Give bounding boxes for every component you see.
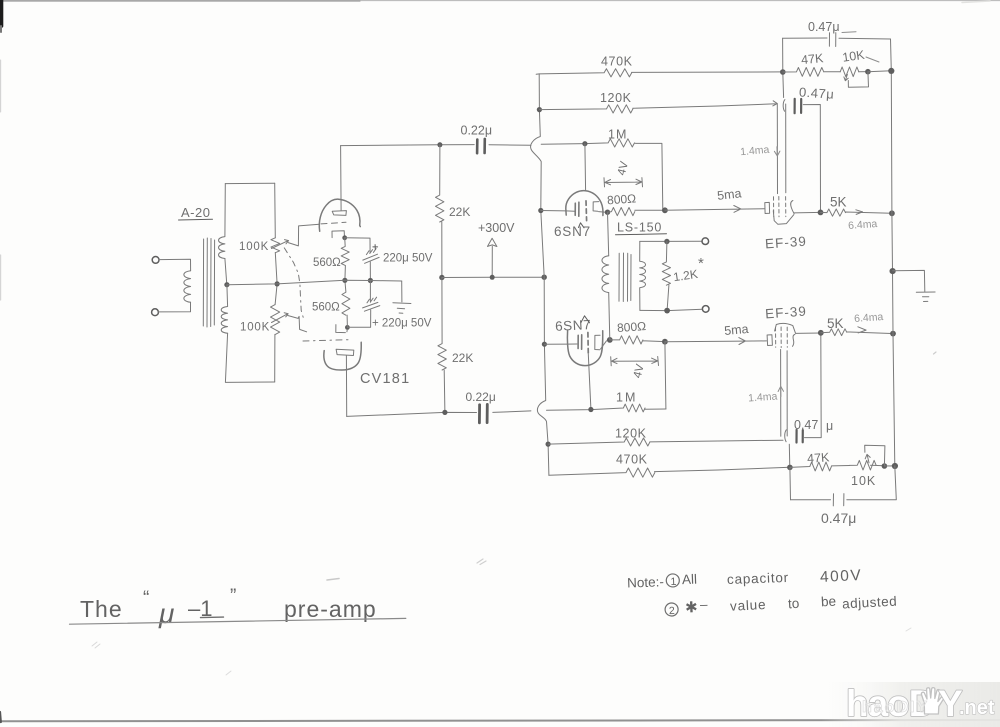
wire top row [341,145,531,146]
wire wiper to grid step lower [288,316,307,332]
svg-text:1: 1 [670,576,676,588]
wire box right edge middle [275,253,277,305]
wire box right edge lower [274,334,276,382]
svg-text:800Ω: 800Ω [607,191,637,207]
node cathode upper [342,235,347,240]
capacitor 220u50V upper plates [363,249,379,264]
svg-text:✱: ✱ [685,599,698,616]
wire bottom block left vertical [789,467,792,499]
svg-text:1.4ma: 1.4ma [740,144,770,159]
resistor 5K lower [821,327,893,336]
scan top edge line [0,0,1000,2]
svg-text:0.47μ: 0.47μ [821,510,856,526]
input jack J2 bottom [152,309,159,316]
svg-text:–: – [700,597,709,612]
node 120K top row [537,107,542,112]
svg-text:6.4ma: 6.4ma [854,311,884,325]
circled 1 [666,574,679,587]
wire plate to bottom row [345,356,347,417]
svg-text:6SN7: 6SN7 [554,224,591,239]
svg-text:6.4ma: 6.4ma [848,218,878,232]
node center tap [224,282,229,287]
EF-39 upper envelope [773,201,794,225]
node right bus 5K lower [890,331,896,337]
check mark on label lower [581,316,590,323]
capacitor 0.47u top row [783,33,891,47]
wire cap to cathode node upper [803,105,820,213]
node 6SN7 bottom plate row [542,342,547,347]
tube CV181 upper envelope [319,199,360,231]
svg-text:0.47μ: 0.47μ [799,84,835,101]
node 470K row right [787,465,793,471]
svg-text:120K: 120K [600,91,632,105]
node 6SN7 top plate row [538,208,543,213]
node top row bus [437,142,442,147]
pot 10K wiper arrow [844,74,848,80]
resistor 22K upper on bus [436,145,444,277]
ground right [893,270,936,301]
potentiometer 10K bottom [850,460,877,470]
node 800R left upper [605,210,610,215]
node 800R right lower [662,339,668,345]
resistor 800R lower [610,336,665,344]
node +300V rail right [542,275,547,280]
svg-text:*: * [698,255,704,272]
capacitor 220u50V lower plates [363,297,380,311]
node 10K right bottom [882,463,888,469]
wire bottom row [347,411,531,417]
CV181 upper cathode [332,231,345,238]
EF-39 lower cathode box [767,335,772,346]
dimension 4V lower [611,357,659,366]
scan corner blob top-left [0,0,3,26]
wire left bus (with crossover hops) [531,74,549,475]
svg-text:470K: 470K [601,55,633,69]
scan left edge mark [0,60,2,112]
scan bottom edge line [0,720,1000,721]
potentiometer 10K top [840,67,859,77]
svg-text:120K: 120K [615,427,647,441]
svg-text:470K: 470K [616,453,648,467]
transformer A-20 secondary upper coil [219,184,226,259]
resistor 5K upper [821,209,892,216]
wire cathode to cap upper [345,238,370,253]
wire cathode to cap lower [347,326,370,328]
svg-text:All: All [682,572,698,588]
svg-text:1M: 1M [608,128,627,142]
svg-text:be: be [821,594,837,610]
resistor 1M bottom row [547,404,666,412]
LS-150 core [619,253,631,302]
node 120K bottom row [546,442,551,447]
resistor 120K bottom row [548,438,783,446]
dimension 4V upper [604,178,643,187]
wire primary to 6SN7 lower cathode [609,293,610,340]
EF-39 lower plate out [796,332,821,334]
node +300V arrow base [490,275,495,280]
node 5K left upper [818,210,824,216]
svg-text:EF-39: EF-39 [765,234,808,252]
CV181 upper grid (dashed) [321,222,346,224]
svg-text:CV181: CV181 [360,371,410,387]
wire right bus [891,71,895,466]
dash-dot crossover wiper line [284,248,304,320]
wire 5ma lower with arrow [665,338,767,345]
wire 10K bracket bottom [865,445,885,466]
svg-text:0.22μ: 0.22μ [466,390,496,404]
6SN7 lower cathode [595,335,607,350]
node cathode lower [345,325,350,330]
svg-text:+ 220μ 50V: + 220μ 50V [372,318,432,330]
wire [158,302,190,312]
transformer A-20 core [202,239,204,326]
wire top block right vertical [890,39,893,71]
node 1M bottom left [588,407,593,412]
svg-text:0.47μ: 0.47μ [808,20,840,34]
wire [159,259,191,271]
tube 6SN7 upper envelope [566,191,603,216]
wire box bottom-left + bottom edge [225,333,274,382]
pot wiper arrow upper [272,240,289,249]
svg-text:10K: 10K [841,48,866,65]
potentiometer 100K lower body [271,305,280,335]
svg-text:capacitor: capacitor [727,570,789,587]
pot 10K bottom wiper arrow [865,454,870,462]
svg-text:4V: 4V [632,363,647,380]
title underline [70,618,406,624]
6SN7 upper cathode [593,202,606,213]
svg-text:1.2K: 1.2K [672,267,698,284]
svg-text:47K: 47K [801,51,825,67]
wire cap upper to center [369,262,371,281]
node 1M top left [582,141,587,146]
wire screen verticals upper [777,104,786,194]
6SN7 lower plate bars [578,335,582,349]
capacitor 0.47u bottom row [791,466,897,506]
capacitor 0.47u screen lower [785,430,790,468]
wire secondary top to output [640,240,702,242]
6SN7 upper plate bars [575,202,579,216]
wire row to bus bottom [884,465,894,467]
node 10K right top [865,69,871,75]
node 47K row right bus [888,68,894,74]
EF-39 upper cathode box [765,202,770,213]
svg-text:0.47: 0.47 [794,418,818,432]
svg-text:“: “ [143,588,149,609]
LS-150 primary coil [602,256,609,293]
svg-text:5K: 5K [827,316,844,331]
wire plate to top row [340,146,343,211]
wire wiper to grid step upper [288,224,319,246]
wire 47K row to bus [868,70,891,73]
svg-text:1.4ma: 1.4ma [748,390,778,404]
wire top block left vertical [782,38,784,72]
svg-text:560Ω: 560Ω [313,257,341,269]
svg-text:10K: 10K [851,474,876,488]
node 5K left lower [818,330,824,336]
node +300V rail left [439,275,444,280]
transformer A-20 secondary lower coil [221,285,227,334]
node pot junction [275,281,280,286]
corner streak top-right [962,1,990,3]
resistor 47K top [783,68,840,77]
resistor 1.2K [662,242,670,311]
CV181 lower grid (dash-dot) [303,340,352,341]
svg-text:400V: 400V [820,567,863,586]
svg-text:haoDIY: haoDIY [862,699,929,716]
svg-text:560Ω: 560Ω [312,302,340,314]
wire 800R node to 1M row lower [665,342,666,409]
resistor 120K top row [539,101,777,113]
ground CV181 [393,281,411,313]
node 47K row left [780,69,786,75]
svg-text:μ: μ [158,598,174,629]
output jack top [702,238,709,245]
EF-39 upper grid dashes [773,197,775,217]
svg-text:4V: 4V [616,160,631,177]
wire cap lower top [369,281,371,303]
plus sign upper [373,245,378,250]
wire secondary to center tap [225,259,227,285]
wire plate row lower [544,343,577,345]
svg-text:adjusted: adjusted [842,594,898,612]
capacitor 0.22u upper [477,139,485,153]
resistor 470K top row [536,69,783,77]
wire box top edge [225,182,274,184]
node 800R left lower [607,337,613,343]
circled 2 [665,603,678,616]
wire secondary bottom to output [640,309,703,310]
capacitor 0.22u lower [479,404,487,422]
tube CV181 lower envelope [324,342,361,370]
svg-text:800Ω: 800Ω [617,319,647,335]
CV181 lower plate [336,349,354,355]
svg-text:+300V: +300V [478,221,515,235]
svg-text:100K: 100K [240,322,270,334]
resistor 560R lower [342,280,350,327]
svg-text:6SN7: 6SN7 [555,317,592,334]
wire cap lower bottom [370,310,372,327]
svg-text:.net: .net [959,697,995,719]
node 1.2K bottom [664,308,670,314]
check mark on label [579,223,585,228]
node 800R right upper [662,207,668,213]
node 1.2K top [664,239,669,244]
resistor 22K lower on bus [438,278,446,413]
LS-150 secondary coil [640,241,646,310]
svg-text:A-20: A-20 [181,205,210,220]
tube 6SN7 lower envelope [567,331,602,366]
wire center line (tap to cathode net) [227,280,402,284]
resistor 800R upper [608,208,665,216]
svg-text:The: The [80,596,123,622]
svg-text:EF-39: EF-39 [765,304,808,322]
wire grid drop [584,144,587,191]
wire box right edge upper [274,183,277,238]
pot wiper arrow lower [272,313,289,323]
smudge marks [327,579,339,581]
wire cathode tick [346,329,348,331]
+300V arrow [488,238,497,277]
node center left [342,278,347,283]
capacitor 0.47u screen upper [783,72,785,111]
svg-text:100K: 100K [239,241,269,253]
resistor 470K bottom row [549,467,790,477]
wire cap to node lower [805,333,822,438]
svg-text:1M: 1M [616,391,637,405]
resistor 560R upper [341,238,349,280]
svg-text:2: 2 [669,605,675,617]
svg-text:value: value [730,597,767,614]
watermark haoDIY.net [846,683,995,724]
svg-text:”: ” [230,586,236,607]
svg-text:5K: 5K [830,195,847,210]
wire plate row upper [541,210,575,213]
svg-text:22K: 22K [452,351,473,365]
output jack bottom [702,306,709,313]
EF-39 upper plate out [794,211,821,214]
resistor 47K bottom [790,462,850,471]
wire 6SN7 upper cathode drop [608,212,609,256]
EF-39 lower grid dashes [775,327,777,347]
6SN7 lower grid dashes [587,333,589,355]
CV181 lower cathode [336,325,346,333]
svg-text:0.22μ: 0.22μ [461,124,493,138]
node center right [368,278,373,283]
wire screen verticals lower [781,350,788,437]
node bottom row bus [442,410,447,415]
EF-39 lower envelope [775,323,796,346]
input jack J1 top [152,257,159,264]
svg-text:47K: 47K [807,450,831,466]
wire 5ma upper with arrow [665,206,764,213]
svg-text:pre-amp: pre-amp [284,596,377,622]
node bus bottom right [892,463,898,469]
6SN7 upper grid dashes [585,201,588,221]
node ground tap [890,268,896,274]
wire 10K bracket top [848,72,868,88]
svg-text:to: to [788,596,800,612]
wire grid drop lower [588,354,591,409]
svg-text:Note:-: Note:- [627,574,664,590]
svg-text:5ma: 5ma [716,186,742,202]
svg-text:μ: μ [826,419,833,433]
+300V rail [442,276,544,278]
svg-text:220μ 50V: 220μ 50V [383,253,433,265]
CV181 upper plate [332,211,346,216]
svg-text:22K: 22K [449,205,470,219]
resistor 1M top row [541,139,663,211]
svg-text:LS-150: LS-150 [617,221,662,235]
node right bus 5K upper [889,210,895,216]
svg-text:5ma: 5ma [724,322,749,338]
transformer A-20 primary coil [184,271,191,303]
potentiometer 100K upper body [271,238,280,253]
